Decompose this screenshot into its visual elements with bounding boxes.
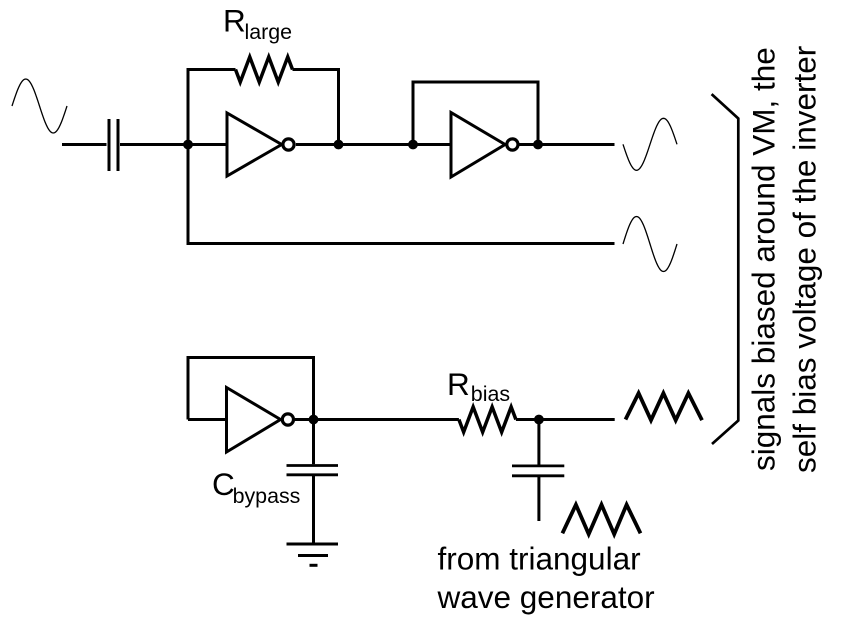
svg-text:self bias voltage of the inver: self bias voltage of the inverter [787,46,823,473]
output sine wave (inverted) [623,118,677,170]
node A [183,140,193,150]
U2 feedback wire [413,82,538,145]
ground symbol [287,544,339,565]
wire R_bias to node F [516,418,539,421]
right bracket [712,94,739,444]
feedback wire right side (down to node B) [293,70,339,145]
inverter U3 triangle [227,388,281,453]
node C [408,140,418,150]
svg-text:C: C [212,466,235,502]
inverter U2 bubble [507,139,518,150]
wire node F down to capacitor C2 [537,420,540,465]
inverter U3 feedback wire [188,358,314,420]
wire input to capacitor [62,143,107,146]
wire node A down and right (VM reference) [188,145,615,244]
resistor R_bias zigzag [459,407,516,432]
svg-text:large: large [245,20,293,44]
svg-text:bypass: bypass [233,484,301,508]
wire node E to resistor R_bias [314,418,459,421]
node E [309,415,319,425]
lower sine wave [623,217,677,272]
svg-text:bias: bias [471,382,510,406]
wire node F right [539,418,615,421]
wire below C2 [537,477,540,521]
node B [334,140,344,150]
svg-text:R: R [447,366,470,402]
svg-text:from triangular: from triangular [438,540,641,576]
wire U2 output to node D [520,143,539,146]
resistor R_large zigzag [236,57,293,82]
inverter U2 triangle [451,113,505,178]
capacitor C_bypass plates [287,466,339,475]
triangular wave symbol (from generator) [562,505,640,534]
node F [534,415,544,425]
wire node A to inverter U1 input [188,143,227,146]
capacitor C1 (input coupling) [109,119,118,171]
wire node C to inverter U2 input [413,143,451,146]
inverter U1 triangle [227,113,282,176]
wire U3 input [188,418,227,421]
node D [533,140,543,150]
output wire top [538,143,615,146]
feedback wire left side (node A up) [188,70,236,145]
triangular wave symbol (right of wire) [626,393,703,420]
wire U1 output to node B [296,143,339,146]
svg-text:signals biased around VM, the: signals biased around VM, the [746,47,782,471]
wire node B to node C [339,143,414,146]
inverter U1 bubble [283,139,294,150]
wire C_bypass to ground [312,476,315,543]
wire U3 output to node E [295,418,314,421]
capacitor C2 plates [512,466,564,476]
C_bypass wire from node E down [312,420,315,465]
wire capacitor to node A [120,143,188,146]
inverter U3 bubble [282,414,293,425]
input sine wave [12,79,67,133]
svg-text:wave generator: wave generator [437,579,655,615]
svg-text:R: R [223,3,246,39]
